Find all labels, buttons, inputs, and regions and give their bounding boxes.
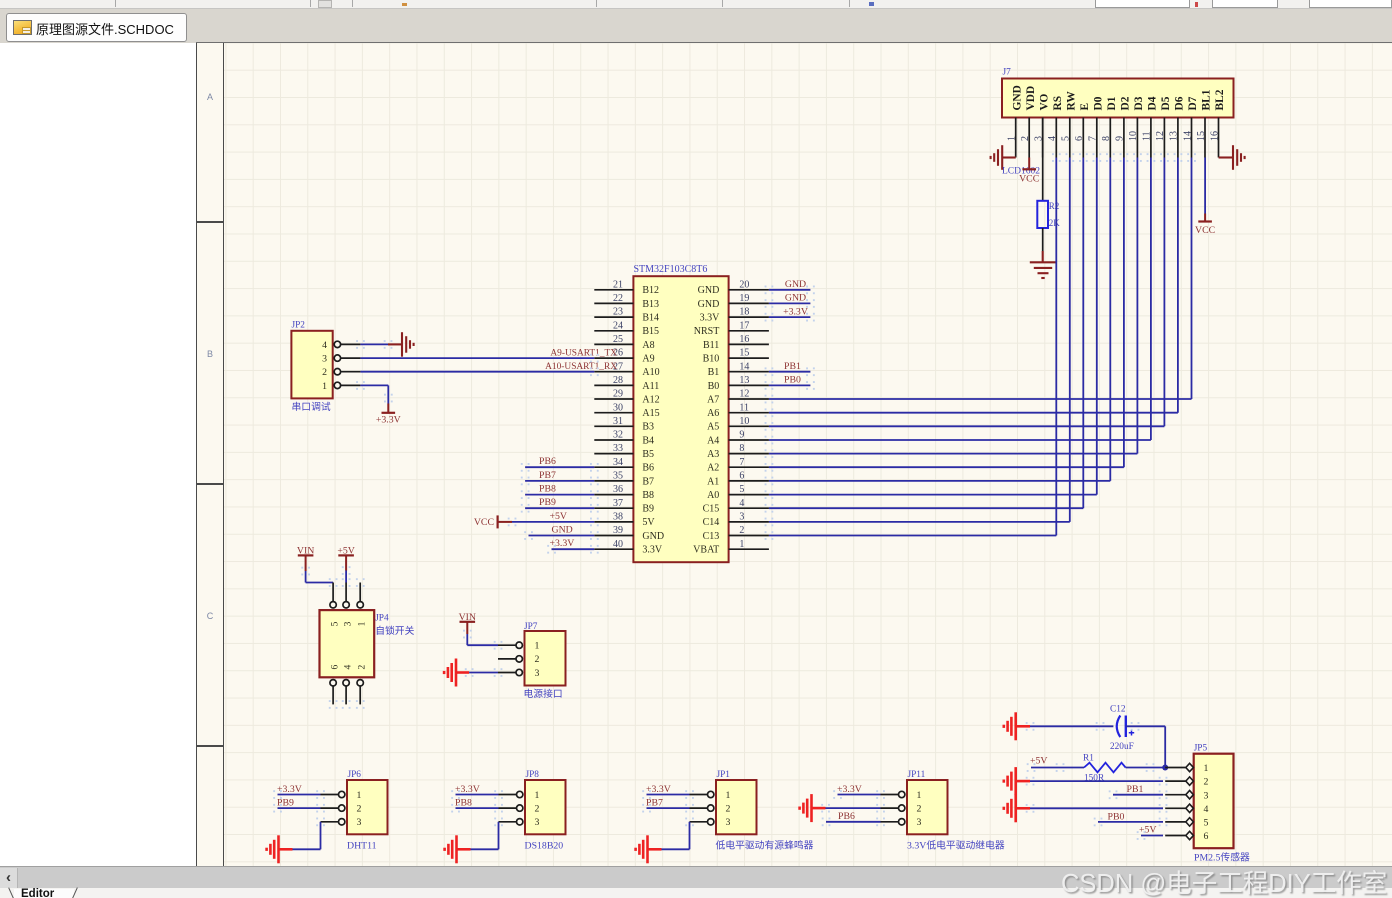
wire/net +3.3V (MCU pin 18) <box>765 306 815 321</box>
ground (C12 wire, red) <box>1004 712 1030 740</box>
left white panel <box>0 43 196 866</box>
wire/net +3.3V (JP8 pin 1) <box>451 784 503 799</box>
JP11 pins 1-3 <box>881 791 905 825</box>
resistor R1 (zigzag) <box>1084 763 1126 773</box>
connector JP8 (DS18B20) <box>525 770 566 834</box>
top toolbar sliver <box>0 0 1392 9</box>
wire +5V to JP4 pin3 <box>342 566 351 582</box>
connector JP1 (active buzzer) <box>716 770 757 834</box>
power VCC (J7 pin 15) <box>1198 220 1212 222</box>
power VCC port (MCU pin38 +5V) <box>474 515 512 528</box>
connector JP5 (PM2.5 sensor) <box>1194 744 1234 849</box>
wire/net PB7 (MCU pin 35) <box>521 470 599 485</box>
wire/net PB8 (JP8 pin 2) <box>451 798 503 813</box>
ground (J7 pin 16, bar style) <box>1219 145 1245 170</box>
document tab bar <box>0 9 1392 43</box>
wire/net +3.3V (MCU pin40) <box>547 538 599 553</box>
wire/net PB1 (JP5 pin 3) <box>1109 784 1168 799</box>
resistor R2 <box>1037 201 1048 228</box>
MCU right pin numbers 20-1 <box>739 279 749 549</box>
J7 pins 1-16 (stems) <box>1016 118 1219 158</box>
wire JP6 pin 3 to ground <box>279 818 325 850</box>
wire J7 pin3 VO to R2 <box>1042 118 1044 202</box>
wire/net +5V (MCU pin38) <box>508 511 599 526</box>
ground (JP2 pin 4, bar style) <box>402 332 414 357</box>
ground (J7 pin 1, bar style) <box>991 145 1016 170</box>
CSDN watermark <box>1061 863 1392 898</box>
wire MCU pin 6 to J7 pin 8 <box>765 153 1115 485</box>
canvas top border <box>196 42 1392 43</box>
wire/net PB6 (MCU pin 34) <box>521 456 599 471</box>
junction node (C12/R1/JP5 pin1) <box>1162 765 1168 771</box>
JP2 pins 4,3,2,1 <box>322 340 360 392</box>
ground (JP11 pin 2, red) <box>800 794 826 822</box>
wire VIN to JP7 pin1 <box>463 630 502 650</box>
wire JP8 pin 3 to ground <box>457 818 503 850</box>
wire ground to JP5 pin4 <box>1026 804 1168 813</box>
MCU left pin names <box>642 285 664 555</box>
wire/net PB1 (MCU pin 14) <box>765 361 815 376</box>
ground (JP7 pin 3, red) <box>444 659 469 687</box>
JP4 bottom pins 6,4,2 <box>329 680 365 709</box>
net/wire +5V to R1 <box>1027 756 1084 772</box>
wire MCU pin 4 to J7 pin 6 <box>765 153 1088 512</box>
wire/net PB0 (JP5 pin 5) <box>1094 812 1168 827</box>
wire MCU pin 12 to J7 pin 14 <box>765 153 1196 403</box>
schematic canvas with grid <box>224 43 1392 866</box>
connector JP2 (serial debug) <box>291 321 332 399</box>
MCU U? STM32F103C8T6 <box>633 264 728 562</box>
power VIN (JP7 pin 1) <box>459 612 476 634</box>
bottom editor tab strip <box>0 888 1392 898</box>
wire MCU pin 7 to J7 pin 9 <box>765 153 1129 472</box>
wire/net PB9 (MCU pin 37) <box>521 497 599 512</box>
wire R2 to ground <box>1042 228 1044 262</box>
wire MCU pin 11 to J7 pin 13 <box>765 153 1183 417</box>
MCU left pins 21-40 <box>594 290 633 549</box>
wire A10-USART1_RX (JP2 pin2 to MCU pin27) <box>360 362 617 376</box>
wire/net PB9 (JP6 pin 2) <box>273 798 325 813</box>
wire/net +3.3V (JP1 pin 1) <box>642 784 694 799</box>
power +5V (JP4 pin 3) <box>337 546 355 571</box>
connector J7 (LCD1602 16-pin header) <box>1002 68 1234 118</box>
power VIN (JP4 pin 5) <box>297 546 314 572</box>
power VCC (J7 pin 2 VDD) <box>1019 158 1039 185</box>
wire MCU pin 8 to J7 pin 10 <box>765 153 1142 458</box>
ground (JP1 pin 3, red) <box>636 835 648 863</box>
bottom horizontal scrollbar <box>0 866 1392 888</box>
wire R1 to JP5 pin1 <box>1126 763 1163 772</box>
wire JP1 pin 3 to ground <box>648 818 694 850</box>
wire MCU pin 10 to J7 pin 12 <box>765 153 1169 431</box>
wire/net PB6 (JP11 pin 3) <box>822 811 885 826</box>
wire ground to JP11 pin 2 <box>821 804 885 813</box>
ground (JP8 pin 3, red) <box>445 835 457 863</box>
connector JP4 (self-locking switch) <box>320 610 375 677</box>
wire MCU pin 5 to J7 pin 7 <box>765 153 1102 499</box>
ground (JP6 pin 3, red) <box>267 835 279 863</box>
connector JP7 (power port) <box>524 622 566 686</box>
wire/net PB8 (MCU pin 36) <box>521 484 599 499</box>
connector JP11 (relay) <box>907 770 948 834</box>
power +3.3V (JP2 pin 1) <box>382 412 396 414</box>
wire MCU pin 9 to J7 pin 11 <box>765 153 1156 444</box>
ground (JP5 pin 2, red) <box>1004 767 1030 795</box>
wire/net +3.3V (JP6 pin 1) <box>273 784 325 799</box>
JP4 top pins 5,3,1 <box>329 578 365 608</box>
MCU right pins 20-1 <box>729 290 769 549</box>
wire MCU pin 2 to J7 pin 4 <box>765 153 1061 540</box>
wire VIN to JP4 pin5 <box>301 567 333 583</box>
wire MCU pin 3 to J7 pin 5 <box>765 153 1075 526</box>
earth ground (below R2) <box>1030 262 1056 278</box>
JP5 pins 1-6 <box>1165 763 1193 839</box>
wire/net PB7 (JP1 pin 2) <box>642 798 694 813</box>
wire ground to JP7 pin3 <box>465 668 503 677</box>
capacitor C12 (polarized) <box>1117 716 1134 738</box>
sheet zone ruler <box>196 43 224 866</box>
wire/net GND (MCU pin 20) <box>765 279 815 294</box>
connector JP6 (DHT11) <box>347 770 388 834</box>
wire JP2 pin4 to ground <box>356 340 401 349</box>
wire JP2 pin1 to +3.3V <box>356 381 393 412</box>
MCU right pin names <box>693 285 720 555</box>
JP8 pins 1-3 <box>499 791 523 825</box>
ground (JP5 pin 4, red) <box>1004 794 1030 822</box>
wire J7 pin15 BL1 to VCC <box>1204 158 1206 222</box>
J7 pin numbers 1-16 <box>1007 131 1221 141</box>
wire ground to C12 <box>1026 722 1114 731</box>
MCU left pin numbers 21-40 <box>613 279 623 549</box>
JP6 pins 1-3 <box>321 791 345 825</box>
wire/net +3.3V (JP11 pin 1) <box>833 784 885 799</box>
wire/net +5V (JP5 pin 6) <box>1137 825 1163 840</box>
wire/net PB0 (MCU pin 13) <box>765 375 815 390</box>
wire A9-USART1_TX (JP2 pin3 to MCU pin26) <box>360 348 617 362</box>
wire/net GND (MCU pin39) <box>524 525 599 540</box>
JP1 pins 1-3 <box>690 791 714 825</box>
wire C12 to JP5 pin1 net <box>1126 722 1165 768</box>
wire ground to JP5 pin2 <box>1026 777 1168 786</box>
JP7 pins 1-3 <box>498 642 522 676</box>
wire/net GND (MCU pin 19) <box>765 293 815 308</box>
